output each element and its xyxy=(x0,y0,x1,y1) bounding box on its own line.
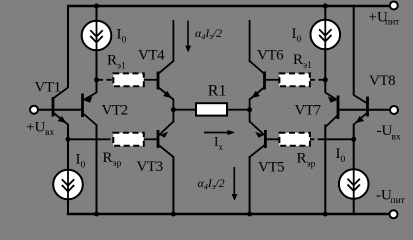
node: dot on top rail at x=96.5 xyxy=(94,3,99,8)
node: dot bottom rail x=325.3 xyxy=(323,212,328,217)
wire: VT6 emitter / VT5 emitter column xyxy=(249,99,251,123)
wire: VT1 emitter column down to bottom corner xyxy=(67,124,69,215)
resistor R1 xyxy=(173,103,249,115)
wire: VT4 emitter / VT3 emitter column xyxy=(172,99,174,123)
transistor VT2 xyxy=(83,93,97,126)
node: junction dot left emitter row xyxy=(66,137,71,142)
wire: VT5 collector to bottom rail xyxy=(249,156,251,214)
transistor VT4 xyxy=(158,61,173,100)
transistor VT6 xyxy=(250,61,265,100)
arrow: Ix current through R1 xyxy=(204,130,235,135)
wire: VT8 emitter column down to bottom rail xyxy=(353,124,355,214)
terminal -Usup bottom right xyxy=(390,210,398,218)
terminal +Uin left xyxy=(30,106,38,114)
svg-text:VT6: VT6 xyxy=(257,48,284,64)
svg-text:+U: +U xyxy=(26,120,45,136)
node: dot on top rail at x=325.3 xyxy=(323,3,328,8)
svg-text:α4Iэ/2: α4Iэ/2 xyxy=(198,176,225,192)
transistor VT7 xyxy=(325,93,338,128)
transistor VT5 xyxy=(250,122,266,158)
transistor VT8 xyxy=(354,95,368,125)
node: dot bottom rail x=249.6 xyxy=(247,212,252,217)
node: dot at R_e1 tap (96.5,79.8) xyxy=(94,77,99,82)
wire: VT3 collector to bottom rail xyxy=(172,156,174,214)
current source I0 top-right xyxy=(311,20,341,50)
wire: left rail x=68 (VT1 collector up to top rail) xyxy=(67,5,69,88)
wire: VT4 collector stub xyxy=(172,20,174,62)
arrow: top current annotation xyxy=(185,21,191,53)
current source I0 bottom-left xyxy=(53,170,83,200)
svg-text:R1: R1 xyxy=(208,83,227,100)
node: dot bottom rail x=173.4 xyxy=(171,212,176,217)
wire: VT7 collector column down to bottom rail xyxy=(324,125,326,215)
svg-text:VT8: VT8 xyxy=(369,73,395,89)
svg-text:VT3: VT3 xyxy=(137,159,163,175)
resistor Re1 left (dashed) xyxy=(98,73,158,86)
resistor Re1 right (dashed) xyxy=(265,73,326,86)
svg-text:-U: -U xyxy=(377,123,393,139)
wire: input to VT1/VT2 bases xyxy=(38,109,82,111)
wire: top supply rail xyxy=(67,5,391,7)
wire: VT6 collector stub xyxy=(249,20,251,62)
svg-text:VT5: VT5 xyxy=(258,160,284,176)
svg-text:пит: пит xyxy=(385,18,400,28)
svg-text:VT4: VT4 xyxy=(138,48,165,64)
terminal +Usup top right xyxy=(390,2,398,10)
wire: VT2 collector column down to bottom rail xyxy=(96,125,98,215)
node: junction dot right emitter row xyxy=(351,137,356,142)
svg-text:вх: вх xyxy=(45,128,54,138)
svg-text:α4Iэ/2: α4Iэ/2 xyxy=(195,26,222,42)
arrow: bottom current annotation xyxy=(232,167,238,201)
svg-text:VT2: VT2 xyxy=(102,103,128,119)
resistor Rep right (dashed) xyxy=(265,133,353,146)
current source I0 bottom-right xyxy=(339,169,369,199)
transistor VT1 xyxy=(53,88,68,125)
wire: bottom supply rail xyxy=(67,213,390,215)
node: dot at right R_e1 tap (325.3,79.8) xyxy=(323,77,328,82)
svg-text:VT1: VT1 xyxy=(35,80,61,96)
transistor VT3 xyxy=(158,122,173,158)
node: R1 left junction xyxy=(171,107,176,112)
node: R1 right junction xyxy=(247,107,252,112)
svg-text:пит: пит xyxy=(391,196,406,206)
svg-text:VT7: VT7 xyxy=(295,103,322,119)
resistor Rep left (dashed) xyxy=(68,133,158,146)
current source I0 top-left xyxy=(82,21,112,51)
terminal -Uin right xyxy=(390,106,398,114)
svg-text:вх: вх xyxy=(392,133,401,143)
wire: VT7/VT8 bases to right input xyxy=(338,109,390,111)
wire: top-left current source column x=96.5 xyxy=(96,6,98,93)
wire: top-right current source column x=325.3 xyxy=(324,6,326,93)
wire: VT8 collector rail x=353.7 xyxy=(353,5,355,96)
node: dot bottom rail x=96.5 xyxy=(94,212,99,217)
